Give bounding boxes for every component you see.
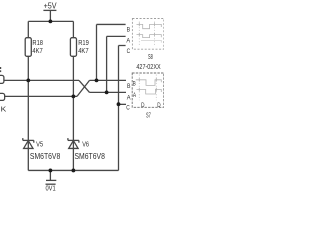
svg-text:0V1: 0V1 <box>46 183 56 192</box>
S7 mechanical link dashed lines <box>139 75 156 101</box>
svg-text:A: A <box>133 92 137 99</box>
wire input2 horizontal <box>5 95 77 97</box>
resistor R19 <box>70 38 76 57</box>
S7 contact row A <box>137 90 162 95</box>
wire to S7 pin B <box>90 79 127 81</box>
wire S7 pin C stub <box>119 103 127 105</box>
S7 contact row A ticks <box>139 88 156 92</box>
wire S8 pin A drop <box>107 36 126 92</box>
junction S7.C net <box>117 102 121 106</box>
wire net C vertical <box>118 46 120 171</box>
svg-text:B: B <box>127 27 131 34</box>
svg-text:V5: V5 <box>36 140 43 149</box>
svg-text:A: A <box>127 94 131 101</box>
junction S8.B net <box>95 79 99 83</box>
svg-text:B: B <box>133 80 136 87</box>
junction +5V rail <box>49 20 53 24</box>
S7 contact row B <box>136 80 162 86</box>
wire top rail <box>28 20 73 22</box>
S8 contact row 2 <box>137 35 162 38</box>
S8 contact row 1 <box>137 24 162 28</box>
wire input1 horizontal <box>4 79 79 81</box>
S8 contact row 1 ticks <box>139 23 154 27</box>
junction R19/input2 <box>72 95 76 99</box>
svg-text:C: C <box>126 105 130 112</box>
connector X1 pin 1 <box>0 75 4 83</box>
S8 contact row 3 hint <box>141 40 161 42</box>
diode V5 <box>23 138 34 148</box>
wire column net2 R19-V6 <box>72 56 74 170</box>
svg-text:427-02XX: 427-02XX <box>136 64 160 71</box>
wire R18 top <box>27 21 29 37</box>
resistor R18 <box>25 38 31 57</box>
wire column net1 R18-V5 <box>27 56 29 170</box>
S8 contact row 2 ticks <box>139 33 154 37</box>
svg-text:C: C <box>127 48 131 55</box>
switch S7 dashed box <box>132 73 164 107</box>
svg-text:SM6T6V8: SM6T6V8 <box>75 152 106 161</box>
junction V6 rail <box>72 169 76 173</box>
svg-text:+5V: +5V <box>44 1 58 10</box>
wire crossover diagonal up <box>77 80 90 96</box>
svg-text:4K7: 4K7 <box>32 46 42 55</box>
svg-text:K: K <box>1 104 7 113</box>
S8 mechanical link dashed lines <box>139 22 154 47</box>
connector X1 pin 2 <box>0 93 5 100</box>
supply +5V symbol <box>43 10 56 21</box>
svg-text:S7: S7 <box>146 111 151 120</box>
svg-text:D: D <box>157 102 161 109</box>
wire R19 top <box>72 21 74 37</box>
junction S8.A net <box>105 91 109 95</box>
wire bottom rail <box>28 169 118 171</box>
wire S8 pin B drop <box>97 24 126 80</box>
svg-text:A: A <box>126 38 130 45</box>
svg-text:4K7: 4K7 <box>78 46 88 55</box>
switch S8 dashed box <box>132 19 163 50</box>
svg-text:SM6T6V8: SM6T6V8 <box>30 152 61 161</box>
diode V6 <box>68 138 79 148</box>
wire S8 pin C stub <box>119 45 126 47</box>
wire to S7 pin A <box>90 91 127 93</box>
svg-text:B: B <box>127 83 131 90</box>
svg-text:V6: V6 <box>82 140 89 149</box>
net label fragment above connector <box>0 67 1 69</box>
svg-text:S8: S8 <box>148 52 153 61</box>
svg-text:D: D <box>141 102 145 109</box>
ground 0V1 symbol <box>46 170 57 184</box>
junction ground tap <box>49 169 53 173</box>
wire crossover diagonal down <box>79 80 90 92</box>
junction R18/input1 <box>26 79 30 83</box>
S7 contact row B ticks <box>139 78 156 82</box>
